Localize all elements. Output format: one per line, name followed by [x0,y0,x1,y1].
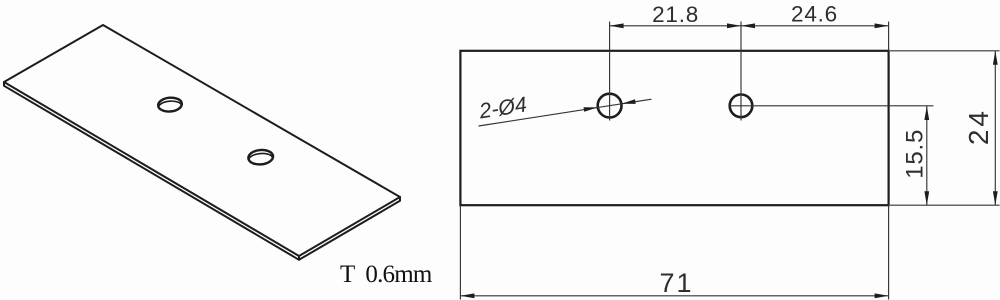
svg-text:15.5: 15.5 [902,129,929,179]
svg-text:21.8: 21.8 [652,2,699,27]
svg-text:24: 24 [963,108,994,145]
svg-text:71: 71 [659,268,693,298]
svg-text:24.6: 24.6 [791,2,838,27]
svg-text:T 0.6mm: T 0.6mm [340,261,433,288]
